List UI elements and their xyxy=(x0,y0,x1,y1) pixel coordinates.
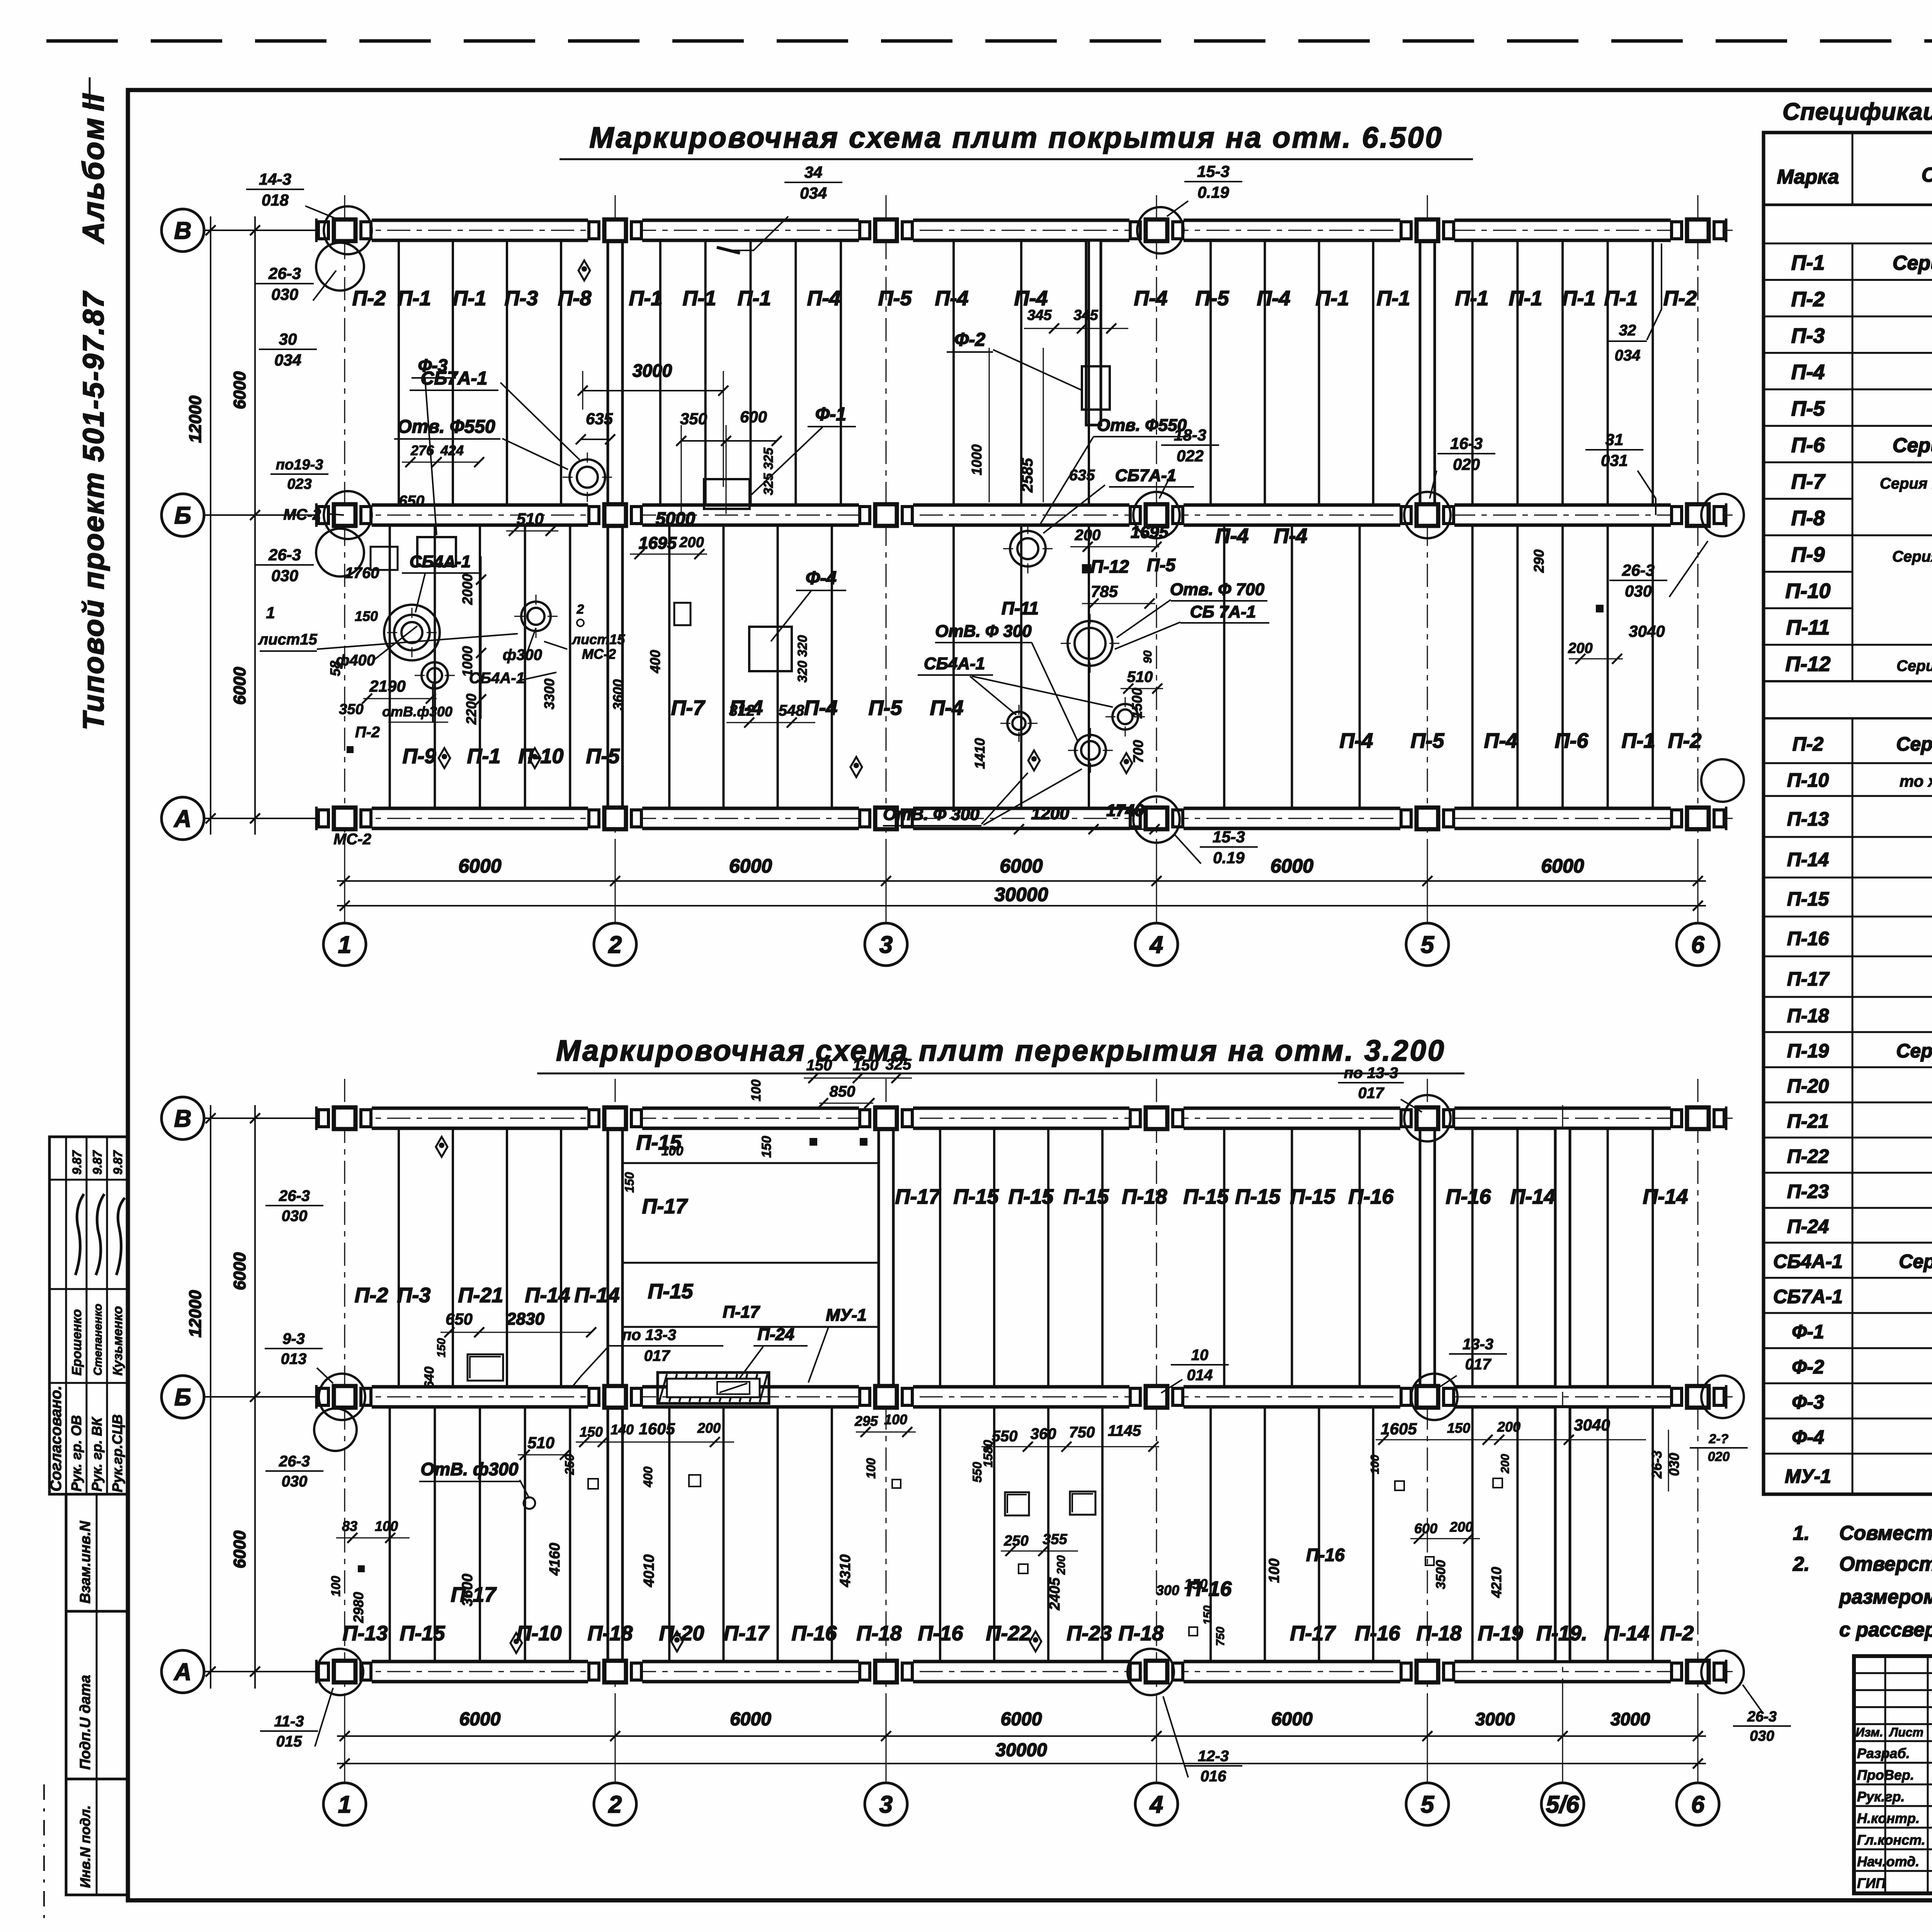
bottom plan right circle at B with flag xyxy=(1701,1376,1744,1418)
svg-text:с рассверловкой.: с рассверловкой. xyxy=(1839,1619,1932,1641)
svg-text:СБ 7А-1: СБ 7А-1 xyxy=(1190,602,1256,621)
svg-text:П-2: П-2 xyxy=(1663,287,1697,310)
svg-text:6000: 6000 xyxy=(730,1709,771,1730)
svg-text:26-3: 26-3 xyxy=(268,546,301,564)
svg-text:П-4: П-4 xyxy=(935,287,969,310)
svg-text:ГИП: ГИП xyxy=(1857,1875,1886,1891)
svg-text:3600: 3600 xyxy=(610,679,626,710)
svg-text:30000: 30000 xyxy=(994,884,1048,905)
svg-text:26-3: 26-3 xyxy=(279,1453,310,1470)
svg-text:6000: 6000 xyxy=(729,855,772,877)
svg-text:П-2: П-2 xyxy=(352,287,386,310)
svg-text:290: 290 xyxy=(1531,549,1547,573)
svg-text:СБ4А-1: СБ4А-1 xyxy=(924,654,985,673)
svg-text:П-1: П-1 xyxy=(1622,729,1655,752)
svg-text:Кузьменко: Кузьменко xyxy=(111,1306,125,1376)
svg-text:МС-2: МС-2 xyxy=(283,506,321,523)
svg-text:П-16: П-16 xyxy=(1355,1622,1401,1645)
top plan stakan SB7A-1 near axis2 xyxy=(570,459,605,495)
top plan vertical beam on axis 2 lower xyxy=(608,525,622,808)
top plan small rect near 400 xyxy=(674,603,690,625)
top plan beam axis V xyxy=(317,220,1726,240)
svg-text:П-4: П-4 xyxy=(804,696,838,719)
svg-text:Нач.отд.: Нач.отд. xyxy=(1857,1854,1919,1869)
svg-text:П-7: П-7 xyxy=(1791,470,1826,493)
svg-text:2.: 2. xyxy=(1793,1553,1810,1575)
svg-text:022: 022 xyxy=(1177,447,1204,465)
bottom plan dimension 30000 xyxy=(337,1763,1706,1764)
svg-text:П-2: П-2 xyxy=(1791,287,1825,311)
svg-text:650: 650 xyxy=(446,1310,473,1328)
svg-text:Серия 1.041.1-2В.6и КЖИ-П7: Серия 1.041.1-2В.6и КЖИ-П7 xyxy=(1880,475,1932,492)
svg-text:П-1: П-1 xyxy=(1377,287,1410,310)
bottom plan columns xyxy=(318,1106,372,1131)
svg-text:П-16: П-16 xyxy=(792,1622,837,1645)
svg-text:Рук.гр.СЦВ: Рук.гр.СЦВ xyxy=(109,1414,125,1492)
svg-text:3: 3 xyxy=(879,932,893,958)
svg-text:П-16: П-16 xyxy=(1446,1185,1492,1208)
svg-text:3600: 3600 xyxy=(459,1574,476,1607)
svg-text:П-5: П-5 xyxy=(1791,397,1825,420)
svg-text:П-18: П-18 xyxy=(1122,1185,1167,1208)
svg-text:020: 020 xyxy=(1453,455,1480,473)
svg-text:100: 100 xyxy=(1369,1455,1381,1474)
svg-text:П-1: П-1 xyxy=(1455,287,1489,310)
svg-text:П-16: П-16 xyxy=(1349,1185,1394,1208)
svg-text:лист15: лист15 xyxy=(571,631,625,647)
svg-text:750: 750 xyxy=(1214,1627,1227,1646)
svg-text:ОтВ. Ф 300: ОтВ. Ф 300 xyxy=(883,805,980,824)
svg-text:400: 400 xyxy=(641,1466,655,1488)
bottom plan beam axis A xyxy=(317,1662,1726,1682)
svg-text:П-15: П-15 xyxy=(648,1280,694,1303)
svg-text:300: 300 xyxy=(1156,1582,1179,1598)
svg-text:П-1: П-1 xyxy=(629,287,663,310)
svg-text:150: 150 xyxy=(622,1172,636,1193)
svg-text:П-24: П-24 xyxy=(1787,1216,1829,1237)
svg-text:Альбом: Альбом xyxy=(76,116,110,244)
svg-text:П-15: П-15 xyxy=(1290,1185,1336,1208)
svg-text:3300: 3300 xyxy=(541,679,557,709)
svg-text:П-12: П-12 xyxy=(1090,556,1129,577)
svg-text:размером 200мм и меньше Выполн: размером 200мм и меньше Выполнить по мес… xyxy=(1838,1586,1932,1608)
svg-text:П-10: П-10 xyxy=(1786,580,1831,603)
top plan plates upper band xyxy=(398,240,400,505)
svg-text:640: 640 xyxy=(422,1367,437,1389)
svg-text:П-1: П-1 xyxy=(683,287,716,310)
bottom plan axis number circles xyxy=(344,1754,345,1783)
svg-text:3000: 3000 xyxy=(633,361,672,381)
bottom plan vertical beam axis5 upper xyxy=(1420,1128,1435,1387)
svg-text:030: 030 xyxy=(271,285,298,303)
svg-text:325 325: 325 325 xyxy=(761,447,776,495)
svg-text:2585: 2585 xyxy=(1019,458,1036,493)
svg-text:П-18: П-18 xyxy=(1787,1005,1829,1027)
left margin dash-dot line xyxy=(43,1784,45,1924)
top plan plates lower band xyxy=(389,525,391,808)
svg-text:3000: 3000 xyxy=(1475,1709,1515,1729)
bottom plan vertical beam axis5-6 lower xyxy=(1555,1407,1570,1662)
svg-text:П-2: П-2 xyxy=(1660,1622,1694,1645)
svg-text:Рук. гр. ВК: Рук. гр. ВК xyxy=(89,1417,105,1492)
svg-text:П-15: П-15 xyxy=(1235,1185,1281,1208)
svg-text:9-3: 9-3 xyxy=(282,1330,305,1347)
bottom plan right bottom circle flag 26-3/030 xyxy=(1701,1651,1744,1693)
svg-text:П-21: П-21 xyxy=(1787,1111,1829,1132)
svg-text:Лист: Лист xyxy=(1889,1725,1923,1739)
svg-text:12000: 12000 xyxy=(186,1290,205,1337)
svg-text:Серия1.041.1-2В.6иКЖИ: Серия1.041.1-2В.6иКЖИ xyxy=(1896,658,1932,675)
top plan circles at axis1 xyxy=(324,206,372,254)
spec table header xyxy=(1764,204,1932,206)
svg-text:П-19.: П-19. xyxy=(1536,1622,1587,1645)
svg-text:П-3: П-3 xyxy=(1791,324,1825,347)
svg-text:12-3: 12-3 xyxy=(1198,1748,1229,1765)
svg-text:18-3: 18-3 xyxy=(1174,426,1206,444)
top edge dashed line xyxy=(46,39,1932,43)
svg-text:1580: 1580 xyxy=(981,1440,995,1467)
svg-text:2830: 2830 xyxy=(506,1310,544,1328)
svg-text:П-1: П-1 xyxy=(467,745,501,768)
svg-text:1200: 1200 xyxy=(1031,804,1069,823)
top plan columns xyxy=(318,218,372,243)
svg-text:ОтВ. Ф 300: ОтВ. Ф 300 xyxy=(935,622,1032,641)
svg-text:3040: 3040 xyxy=(1629,622,1665,640)
top plan small stakans mid xyxy=(1007,712,1031,735)
svg-text:Серия 1.041.1-2 В.1: Серия 1.041.1-2 В.1 xyxy=(1896,733,1932,755)
svg-text:П-15: П-15 xyxy=(954,1185,999,1208)
svg-text:200: 200 xyxy=(1499,1454,1512,1474)
svg-text:13-3: 13-3 xyxy=(1463,1336,1493,1353)
bottom plan left dimension 12000 xyxy=(210,1105,211,1689)
svg-text:Марка: Марка xyxy=(1777,166,1839,188)
svg-text:П-22: П-22 xyxy=(1787,1146,1829,1167)
svg-text:П-3: П-3 xyxy=(397,1284,431,1307)
top plan axis grid lines xyxy=(344,195,345,854)
svg-text:030: 030 xyxy=(282,1473,308,1490)
top plan right circle at A level xyxy=(1701,759,1744,802)
svg-text:по 13-3: по 13-3 xyxy=(1344,1065,1398,1082)
svg-text:6000: 6000 xyxy=(1541,855,1584,877)
svg-text:100: 100 xyxy=(884,1412,907,1427)
svg-text:П-21: П-21 xyxy=(458,1284,503,1307)
svg-text:32: 32 xyxy=(1619,322,1636,339)
svg-text:034: 034 xyxy=(800,184,827,202)
svg-text:П-11: П-11 xyxy=(1002,598,1039,618)
svg-text:отВ.ф300: отВ.ф300 xyxy=(382,704,452,719)
svg-text:П-14: П-14 xyxy=(1787,849,1829,871)
svg-text:020: 020 xyxy=(1708,1449,1730,1464)
svg-text:П-5: П-5 xyxy=(869,696,903,719)
svg-text:лист15: лист15 xyxy=(258,631,317,648)
svg-text:017: 017 xyxy=(1358,1085,1384,1102)
spec table column lines body xyxy=(1852,205,1853,243)
svg-text:350: 350 xyxy=(339,701,363,718)
svg-text:П-5: П-5 xyxy=(1196,287,1230,310)
svg-text:400: 400 xyxy=(647,650,663,673)
svg-text:П-14: П-14 xyxy=(1510,1185,1556,1208)
svg-text:018: 018 xyxy=(262,191,289,209)
svg-text:150: 150 xyxy=(580,1424,603,1440)
svg-text:320 320: 320 320 xyxy=(795,635,810,682)
svg-text:6000: 6000 xyxy=(1000,855,1043,877)
svg-text:П-19: П-19 xyxy=(1787,1040,1829,1062)
svg-text:200: 200 xyxy=(1497,1419,1520,1435)
svg-text:200: 200 xyxy=(679,534,704,551)
svg-text:П-2: П-2 xyxy=(355,724,380,741)
svg-text:6000: 6000 xyxy=(1270,855,1313,877)
top plan dim 3000 xyxy=(583,390,723,391)
svg-text:Серия 1.041.1-2 В.6: Серия 1.041.1-2 В.6 xyxy=(1896,1040,1932,1062)
svg-text:26-3: 26-3 xyxy=(1622,561,1655,579)
svg-text:424: 424 xyxy=(440,442,464,458)
svg-text:017: 017 xyxy=(1465,1356,1492,1373)
svg-text:550: 550 xyxy=(992,1428,1018,1445)
svg-text:1605: 1605 xyxy=(639,1420,675,1438)
svg-text:П-24: П-24 xyxy=(757,1325,794,1344)
svg-text:90: 90 xyxy=(1141,650,1154,663)
top plan beam axis A xyxy=(317,808,1726,828)
svg-text:П-11: П-11 xyxy=(1786,616,1830,639)
bottom plan bottom dimension line xyxy=(337,1735,1706,1737)
top plan vertical beam on axis 5 upper xyxy=(1420,240,1435,505)
svg-text:П-4: П-4 xyxy=(1484,729,1518,752)
svg-text:250: 250 xyxy=(563,1454,577,1475)
svg-text:П-4: П-4 xyxy=(930,696,964,719)
svg-text:МУ-1: МУ-1 xyxy=(826,1306,867,1325)
svg-text:Гл.конст.: Гл.конст. xyxy=(1857,1832,1925,1848)
svg-text:0.19: 0.19 xyxy=(1213,849,1245,867)
top plan beam axis B xyxy=(317,505,1726,525)
bottom plan vertical beam axis3 upper xyxy=(879,1128,893,1387)
svg-text:П-15: П-15 xyxy=(1009,1185,1054,1208)
svg-text:П-4: П-4 xyxy=(1257,287,1291,310)
svg-text:Отв. Ф 700: Отв. Ф 700 xyxy=(1170,580,1265,599)
svg-text:200: 200 xyxy=(1449,1519,1473,1535)
svg-text:Ф-4: Ф-4 xyxy=(1792,1427,1824,1448)
svg-text:150: 150 xyxy=(1201,1605,1214,1625)
bottom plan axis grid lines xyxy=(344,1079,345,1708)
svg-text:2: 2 xyxy=(577,602,584,617)
svg-text:030: 030 xyxy=(1750,1728,1774,1744)
svg-text:Типовой проект 501-5-97.87: Типовой проект 501-5-97.87 xyxy=(77,291,110,730)
svg-text:СБ4А-1: СБ4А-1 xyxy=(1773,1251,1843,1272)
svg-text:140: 140 xyxy=(611,1422,634,1437)
svg-text:31: 31 xyxy=(1605,430,1624,449)
top plan diamonds lower band xyxy=(439,748,450,768)
svg-text:по19-3: по19-3 xyxy=(276,457,323,473)
svg-text:Серия 1.494-24 В.1: Серия 1.494-24 В.1 xyxy=(1899,1251,1932,1272)
svg-text:Серия 1.041.1-2 В.6: Серия 1.041.1-2 В.6 xyxy=(1893,434,1932,457)
bottom plan horizontal plates bay2 xyxy=(622,1162,879,1164)
svg-text:26-3: 26-3 xyxy=(268,264,301,282)
svg-text:3040: 3040 xyxy=(1574,1416,1610,1434)
svg-text:П-17: П-17 xyxy=(895,1185,942,1208)
svg-text:Ф-2: Ф-2 xyxy=(1792,1356,1824,1378)
svg-text:П-15: П-15 xyxy=(400,1622,446,1645)
svg-text:100: 100 xyxy=(662,1144,684,1158)
top plan left dimension line 6000+6000 xyxy=(254,216,256,835)
svg-text:П-4: П-4 xyxy=(1014,287,1048,310)
svg-text:П-8: П-8 xyxy=(558,287,592,310)
svg-text:ф300: ф300 xyxy=(503,646,542,663)
svg-text:1: 1 xyxy=(338,1791,351,1818)
svg-text:Рук. гр. ОВ: Рук. гр. ОВ xyxy=(68,1415,84,1492)
svg-text:0.19: 0.19 xyxy=(1197,183,1229,201)
top plan left dimension line 12000 xyxy=(210,216,211,835)
svg-text:МС-2: МС-2 xyxy=(333,831,371,848)
svg-text:Обозначение: Обозначение xyxy=(1922,164,1932,186)
top plan bottom dimension line 30000 xyxy=(337,905,1706,906)
svg-text:Отв. Ф550: Отв. Ф550 xyxy=(1097,416,1187,435)
svg-text:6000: 6000 xyxy=(230,1531,249,1568)
svg-text:16-3: 16-3 xyxy=(1450,434,1483,452)
bottom plan left dimension 6000+6000 xyxy=(254,1105,256,1689)
svg-text:П-14: П-14 xyxy=(1604,1622,1650,1645)
svg-text:П-13: П-13 xyxy=(1787,808,1829,830)
svg-text:Б: Б xyxy=(174,502,191,529)
bottom plan MU-1 hatched monolith xyxy=(658,1372,769,1403)
svg-text:150: 150 xyxy=(1184,1576,1207,1592)
svg-text:Серия 1.041.1-2 В.1: Серия 1.041.1-2 В.1 xyxy=(1893,252,1932,274)
svg-text:П-17: П-17 xyxy=(1290,1622,1337,1645)
svg-text:П-9: П-9 xyxy=(1791,543,1825,566)
svg-text:5000: 5000 xyxy=(656,509,696,529)
top plan big stakan otv700 xyxy=(1068,621,1112,666)
svg-text:П-5: П-5 xyxy=(878,287,912,310)
svg-text:Маркировочная схема плит пе: Маркировочная схема плит перекрытия на о… xyxy=(556,1034,1446,1067)
svg-text:Подп.U дата: Подп.U дата xyxy=(77,1675,94,1770)
svg-text:9.87: 9.87 xyxy=(111,1150,125,1175)
svg-text:Инв.N подл.: Инв.N подл. xyxy=(77,1805,93,1888)
svg-text:то же В.6 и КЖИ-П-10: то же В.6 и КЖИ-П-10 xyxy=(1900,772,1932,790)
svg-text:1695: 1695 xyxy=(1131,523,1168,542)
svg-text:2980: 2980 xyxy=(350,1592,366,1623)
top plan ph300 SB4A-1 second labels xyxy=(521,602,551,631)
svg-text:200: 200 xyxy=(697,1420,721,1436)
svg-text:2: 2 xyxy=(608,932,622,958)
svg-text:П-3: П-3 xyxy=(505,287,538,310)
svg-text:034: 034 xyxy=(274,351,301,369)
top plan bottom dimension line 6000x5 xyxy=(337,880,1706,882)
svg-text:295: 295 xyxy=(854,1413,878,1429)
svg-text:650: 650 xyxy=(399,493,425,510)
bottom plan plates upper band xyxy=(398,1128,400,1387)
svg-text:2190: 2190 xyxy=(369,677,405,695)
svg-text:1.: 1. xyxy=(1793,1522,1810,1544)
left stamp: approval table xyxy=(49,1137,128,1494)
svg-text:850: 850 xyxy=(830,1083,855,1100)
svg-text:1000: 1000 xyxy=(969,444,985,475)
svg-text:П-18: П-18 xyxy=(588,1622,633,1645)
svg-text:58: 58 xyxy=(327,661,343,676)
svg-text:700: 700 xyxy=(1130,740,1146,763)
svg-text:П-16: П-16 xyxy=(1306,1545,1345,1565)
spec table outer border xyxy=(1764,133,1932,1494)
svg-text:П-1: П-1 xyxy=(1604,287,1638,310)
svg-text:013: 013 xyxy=(281,1350,307,1367)
svg-text:П-6: П-6 xyxy=(1555,729,1589,752)
svg-text:Ф-3: Ф-3 xyxy=(418,355,448,376)
svg-text:П-2: П-2 xyxy=(355,1284,388,1307)
svg-text:П-1: П-1 xyxy=(738,287,771,310)
svg-text:Изм.: Изм. xyxy=(1855,1725,1883,1739)
svg-text:П-6: П-6 xyxy=(1791,434,1825,457)
svg-text:Согласовано.: Согласовано. xyxy=(48,1386,65,1492)
svg-text:П-2: П-2 xyxy=(1793,733,1824,755)
svg-text:П-1: П-1 xyxy=(1791,251,1825,274)
bottom plan plates lower band xyxy=(389,1407,391,1662)
svg-text:10: 10 xyxy=(1191,1347,1209,1364)
svg-text:А: А xyxy=(173,1659,192,1685)
svg-text:П-19: П-19 xyxy=(1478,1622,1523,1645)
svg-text:200: 200 xyxy=(1568,640,1592,656)
spec table section 2 heading xyxy=(1764,680,1932,682)
svg-text:П-20: П-20 xyxy=(1787,1075,1829,1097)
svg-text:9.87: 9.87 xyxy=(90,1150,104,1175)
svg-text:В: В xyxy=(174,1105,192,1132)
title block outer xyxy=(1854,1656,1932,1893)
svg-text:ПроВер.: ПроВер. xyxy=(1857,1767,1914,1783)
top plan small rect at B axis1 xyxy=(417,537,456,566)
svg-text:П-10: П-10 xyxy=(1787,769,1829,791)
svg-text:П-23: П-23 xyxy=(1067,1622,1112,1645)
svg-text:600: 600 xyxy=(740,408,767,426)
svg-text:П-15: П-15 xyxy=(1787,888,1829,910)
svg-text:5/6: 5/6 xyxy=(1546,1791,1580,1818)
svg-text:4010: 4010 xyxy=(641,1554,657,1588)
svg-text:6000: 6000 xyxy=(230,1252,249,1290)
svg-text:2405: 2405 xyxy=(1047,1577,1063,1611)
top plan stakan at axis3 B xyxy=(1010,531,1046,566)
svg-text:Отв. Ф550: Отв. Ф550 xyxy=(397,417,495,437)
svg-text:П-14: П-14 xyxy=(575,1284,620,1307)
svg-text:П-18: П-18 xyxy=(1417,1622,1462,1645)
svg-text:150: 150 xyxy=(806,1057,832,1074)
svg-text:Отверстия В плитах перекрытий: Отверстия В плитах перекрытий и покрытий xyxy=(1839,1553,1932,1575)
svg-text:6000: 6000 xyxy=(230,667,249,705)
svg-text:Маркировочная схема плит по: Маркировочная схема плит покрытия на отм… xyxy=(589,121,1443,154)
svg-text:Разраб.: Разраб. xyxy=(1857,1745,1910,1761)
svg-text:345: 345 xyxy=(1027,307,1052,323)
svg-text:6000: 6000 xyxy=(230,371,249,409)
svg-text:26-3: 26-3 xyxy=(279,1187,310,1204)
svg-text:П-10: П-10 xyxy=(519,745,564,768)
svg-text:1: 1 xyxy=(266,604,275,622)
svg-text:Ерошенко: Ерошенко xyxy=(70,1309,84,1376)
title block left table xyxy=(1884,1656,1886,1893)
svg-text:5: 5 xyxy=(1421,1791,1435,1818)
svg-text:СБ4А-1: СБ4А-1 xyxy=(410,552,471,571)
svg-text:510: 510 xyxy=(527,1434,554,1452)
svg-text:100: 100 xyxy=(864,1458,878,1479)
svg-text:548: 548 xyxy=(779,702,804,719)
svg-text:100: 100 xyxy=(1266,1558,1282,1583)
svg-text:015: 015 xyxy=(276,1733,302,1750)
svg-text:ОтВ. ф300: ОтВ. ф300 xyxy=(421,1459,519,1479)
svg-text:1410: 1410 xyxy=(972,738,988,769)
svg-text:П-4: П-4 xyxy=(1215,524,1249,548)
svg-text:635: 635 xyxy=(586,410,613,428)
svg-text:14-3: 14-3 xyxy=(259,170,291,188)
svg-text:Ф-4: Ф-4 xyxy=(806,568,837,588)
svg-text:3: 3 xyxy=(879,1791,893,1818)
svg-text:1760: 1760 xyxy=(345,565,379,582)
svg-text:П-17: П-17 xyxy=(642,1195,689,1218)
svg-text:360: 360 xyxy=(1031,1425,1056,1442)
svg-text:П-5: П-5 xyxy=(1147,555,1176,575)
svg-text:Совместно с данным листом см.: Совместно с данным листом см. л.15. xyxy=(1839,1522,1932,1544)
